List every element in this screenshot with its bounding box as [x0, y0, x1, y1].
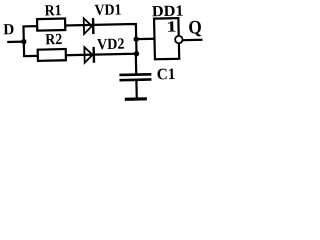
capacitor C1 top plate — [119, 73, 151, 76]
junction dot bus at DD1 input tap — [133, 36, 139, 42]
wire D input — [7, 41, 24, 44]
svg-text:VD1: VD1 — [94, 1, 121, 19]
gate DD1 inversion bubble — [175, 36, 183, 44]
svg-text:1: 1 — [166, 19, 177, 36]
svg-text:R1: R1 — [44, 2, 61, 19]
svg-text:Q: Q — [188, 17, 202, 38]
resistor R2 — [38, 49, 66, 61]
svg-text:C1: C1 — [157, 66, 176, 83]
wire left branch vertical with top and bottom corners — [23, 26, 37, 56]
gate DD1 box — [154, 18, 179, 59]
wire bus to DD1 input — [136, 38, 154, 41]
junction dot bus at capacitor tap — [134, 51, 140, 57]
diode VD2 triangle — [84, 47, 92, 63]
wire DD1 output to Q — [183, 39, 203, 42]
node D junction dot — [21, 39, 27, 45]
wire R2 to VD2 to bus — [66, 54, 137, 56]
capacitor C1 bottom plate — [119, 78, 151, 81]
ground bar — [125, 97, 147, 101]
diode VD2 cathode bar — [92, 47, 95, 63]
diode VD1 cathode bar — [92, 18, 95, 34]
wire R1 to VD1 to right bus down to capacitor junction — [65, 24, 136, 55]
svg-text:D: D — [3, 21, 14, 38]
wire capacitor stub from bus junction — [135, 54, 138, 75]
diode VD1 triangle — [84, 18, 92, 34]
svg-text:R2: R2 — [45, 31, 62, 48]
resistor R1 — [37, 19, 65, 31]
svg-text:VD2: VD2 — [97, 36, 125, 54]
wire C1 to ground — [135, 80, 138, 99]
